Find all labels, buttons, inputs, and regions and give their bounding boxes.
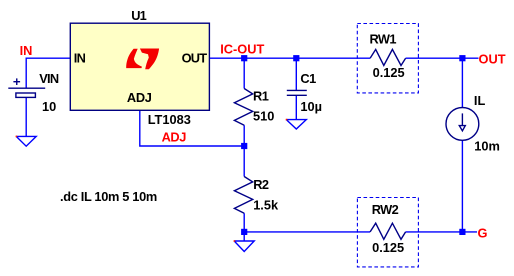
svg-text:10: 10	[42, 99, 56, 114]
svg-text:R2: R2	[253, 177, 269, 192]
svg-text:C1: C1	[300, 71, 316, 86]
svg-text:510: 510	[253, 108, 274, 123]
svg-text:10m: 10m	[474, 138, 500, 153]
svg-text:U1: U1	[131, 8, 146, 23]
svg-text:IN: IN	[74, 51, 86, 66]
svg-text:G: G	[478, 226, 488, 241]
svg-text:ADJ: ADJ	[127, 90, 152, 105]
svg-text:IN: IN	[20, 43, 33, 58]
svg-text:10µ: 10µ	[300, 99, 322, 114]
svg-text:OUT: OUT	[479, 52, 506, 67]
svg-text:LT1083: LT1083	[148, 112, 191, 127]
svg-text:IL: IL	[474, 93, 486, 108]
svg-text:ADJ: ADJ	[162, 130, 187, 145]
svg-text:0.125: 0.125	[373, 65, 405, 80]
svg-text:OUT: OUT	[182, 51, 208, 66]
svg-text:IC-OUT: IC-OUT	[220, 42, 264, 57]
svg-text:RW1: RW1	[370, 31, 397, 46]
svg-text:R1: R1	[253, 88, 269, 103]
svg-text:1.5k: 1.5k	[253, 197, 279, 212]
svg-text:0.125: 0.125	[372, 240, 404, 255]
svg-text:.dc IL 10m 5 10m: .dc IL 10m 5 10m	[60, 189, 157, 204]
svg-text:RW2: RW2	[372, 202, 399, 217]
svg-text:VIN: VIN	[39, 71, 59, 86]
